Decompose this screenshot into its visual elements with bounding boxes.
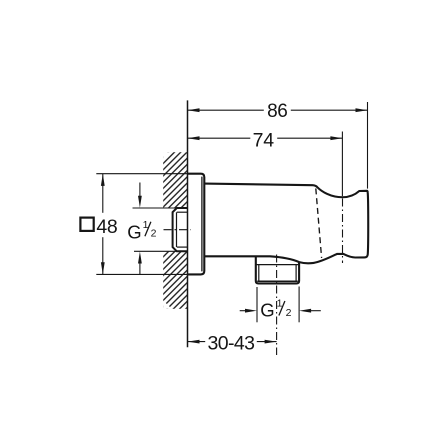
node outlet thread G1/2 (bottom) [256,256,299,283]
wire hidden cone edge (dashed) [316,188,322,258]
svg-text:74: 74 [253,130,275,152]
wire wall face line [187,100,189,347]
node body and holder outline [204,184,368,264]
wire holder axis centerline [342,199,344,264]
svg-text:2: 2 [286,307,292,319]
dimension square 48 [96,174,187,275]
dimension G1/2 bottom (outlet thread) [240,287,321,323]
wire outlet axis centerline [276,252,278,356]
dimension 86 [188,102,368,189]
wire body bottom edge [204,256,299,262]
wall hatch upper [163,152,187,208]
wire inlet axis centerline [164,229,191,231]
node flange (wall escutcheon 48x48) [188,174,205,275]
label G1/2 left [127,219,156,242]
dimension 74 [188,132,343,197]
svg-text:2: 2 [151,228,157,240]
node inlet thread G1/2 (into wall) [173,208,188,251]
svg-text:G: G [260,300,274,321]
hatch ragged corners [163,152,171,160]
dimension 30-43 [188,341,277,343]
svg-text:48: 48 [96,216,117,238]
svg-text:86: 86 [267,101,287,122]
dimension G1/2 left (inlet thread) [133,183,184,275]
svg-text:30-43: 30-43 [207,333,254,355]
wall hatch lower [163,252,187,309]
svg-text:G: G [127,221,141,242]
label G1/2 bottom [260,298,291,321]
